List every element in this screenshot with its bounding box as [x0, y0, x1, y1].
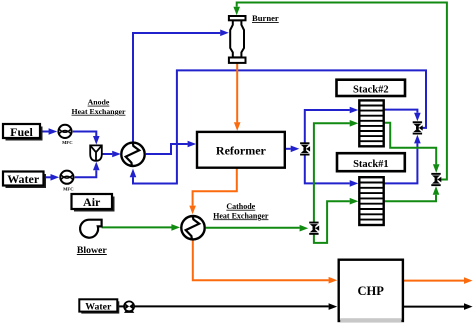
- wire black CHP out: [403, 306, 464, 308]
- wire blue reformer to valve V1: [285, 148, 291, 150]
- node air box: [74, 197, 115, 212]
- wire blue mixer to anode heat exchanger: [102, 153, 112, 155]
- arrows blue: [49, 30, 421, 187]
- wire black water box to valve V5: [118, 305, 124, 307]
- svg-text:Anode: Anode: [88, 98, 110, 107]
- node fuel box: [6, 127, 43, 141]
- wire blue anode HX to reformer: [146, 144, 188, 154]
- svg-text:MFC: MFC: [63, 186, 73, 191]
- node bottom water box: [81, 301, 119, 313]
- node water box: [6, 174, 47, 188]
- svg-text:CHP: CHP: [358, 284, 385, 298]
- node stack2 box: [337, 80, 406, 96]
- wire orange burner to reformer: [236, 63, 238, 123]
- arrows green: [171, 7, 439, 232]
- burner vessel: [229, 16, 246, 63]
- wire blue anode HX top to burner: [133, 33, 220, 142]
- wire green V3 down to Stack#1: [314, 201, 350, 243]
- svg-text:MFC: MFC: [62, 140, 72, 145]
- node CHP box: [339, 260, 403, 321]
- wire orange CHP out: [403, 280, 464, 282]
- wire orange cathode HX to CHP: [193, 241, 329, 281]
- mixer vessel: [90, 145, 102, 160]
- arrows black: [329, 303, 473, 310]
- wire green blower to cathode HX: [102, 226, 172, 228]
- svg-text:Water: Water: [7, 172, 40, 186]
- wire blue V1 up to Stack#2: [305, 110, 350, 144]
- blower: [80, 220, 102, 238]
- svg-text:Stack#2: Stack#2: [353, 85, 389, 96]
- valve V5 water pump: [124, 301, 134, 313]
- wire green cathode HX to valve V3: [206, 227, 300, 229]
- node stack1 box: [337, 153, 405, 171]
- svg-text:Heat Exchanger: Heat Exchanger: [213, 211, 269, 220]
- svg-text:Cathode: Cathode: [226, 202, 255, 211]
- MFC1: [58, 125, 71, 138]
- wire orange reformer to cathode HX: [193, 168, 237, 206]
- wire green V3 up to Stack#2: [314, 123, 350, 222]
- svg-text:Burner: Burner: [252, 13, 279, 23]
- svg-text:Reformer: Reformer: [216, 143, 267, 157]
- svg-text:Fuel: Fuel: [10, 125, 33, 139]
- wire blue Stack#1 out to valve V2: [384, 143, 417, 183]
- node stack1 cell ladder: [359, 177, 383, 225]
- wire green Stack#2 out to valve V4: [384, 123, 436, 165]
- wire blue Stack#2 out to valve V2: [384, 110, 417, 113]
- anode heat exchanger: [121, 143, 144, 166]
- MFC2: [60, 171, 73, 184]
- valve V4 cathode exhaust: [431, 173, 441, 186]
- node reformer box: [197, 132, 285, 168]
- wire blue MFC1 to mixer top: [73, 132, 97, 137]
- cathode heat exchanger: [181, 216, 204, 239]
- valve V3 air split: [309, 222, 319, 235]
- wire green V4 out to burner top: [237, 3, 447, 180]
- wire green Stack#1 out to valve V4: [384, 195, 436, 202]
- wire blue fuel box to MFC1: [41, 131, 53, 133]
- svg-text:Water: Water: [85, 301, 112, 312]
- arrows orange: [189, 122, 472, 284]
- wire blue MFC2 to mixer bottom: [75, 170, 97, 177]
- svg-text:Air: Air: [83, 195, 101, 209]
- valve V1 after reformer: [300, 142, 310, 155]
- svg-text:Heat Exchanger: Heat Exchanger: [72, 107, 126, 116]
- valve V2 anode exhaust: [413, 121, 423, 134]
- wire blue V2 out around to anode HX bottom: [133, 70, 426, 183]
- node stack2 cell ladder: [359, 100, 383, 146]
- svg-text:Blower: Blower: [77, 245, 108, 256]
- wire blue water box to MFC2: [44, 176, 51, 178]
- wire black V5 to CHP: [135, 305, 329, 307]
- svg-text:Stack#1: Stack#1: [353, 159, 389, 170]
- wire blue V1 down to Stack#1: [305, 154, 350, 183]
